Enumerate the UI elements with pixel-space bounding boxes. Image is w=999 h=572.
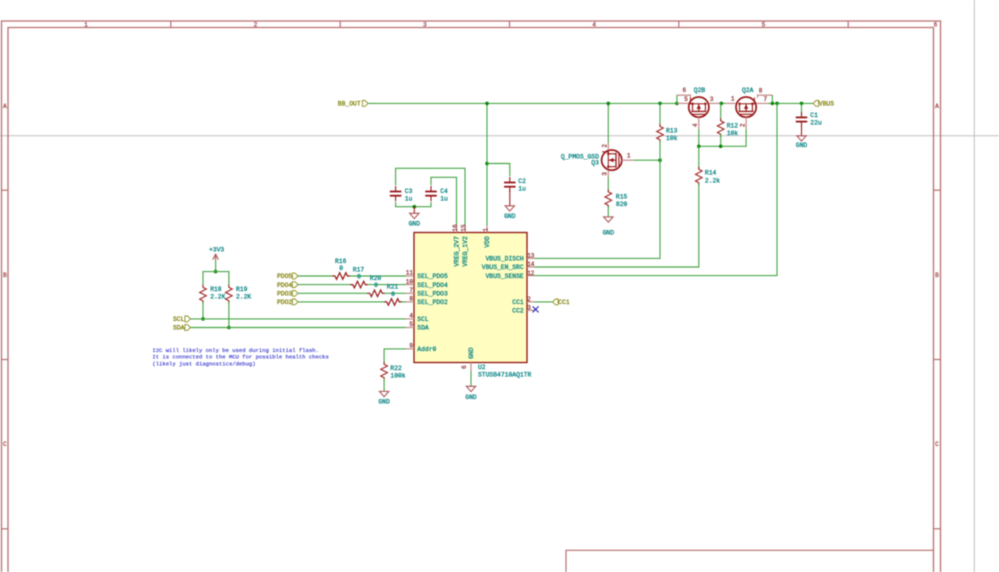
svg-text:6: 6 [682, 87, 686, 94]
svg-text:SEL_PDO4: SEL_PDO4 [417, 282, 448, 289]
wire R16 to pin [350, 275, 406, 277]
junction gate bus left [697, 145, 701, 149]
pin 14 VBUS_EN_SRC [527, 266, 535, 268]
svg-text:16: 16 [452, 224, 459, 232]
svg-text:CC1: CC1 [512, 299, 524, 306]
svg-text:5: 5 [762, 21, 766, 28]
wire to C2 [487, 164, 510, 177]
svg-text:10: 10 [406, 278, 414, 285]
junction +3V3 [214, 270, 218, 274]
svg-text:R15: R15 [616, 193, 628, 200]
svg-text:10k: 10k [666, 135, 678, 142]
svg-text:8: 8 [759, 88, 763, 95]
ground C1 [797, 136, 806, 141]
junction R13 bottom [658, 158, 662, 162]
wire R18 to SCL [202, 302, 204, 319]
transistor Q3 Q_PMOS_GSD [602, 150, 622, 170]
svg-text:6: 6 [461, 365, 468, 369]
svg-text:SCL: SCL [417, 316, 429, 323]
svg-text:Q2A: Q2A [742, 87, 754, 94]
ground C2 [505, 206, 514, 211]
resistor R21 [384, 299, 402, 306]
svg-text:A: A [935, 103, 939, 110]
wire R19 to SDA [228, 302, 230, 327]
svg-text:1: 1 [84, 21, 88, 28]
resistor R16 [332, 273, 350, 280]
pin 1 Q3 [622, 159, 634, 161]
svg-text:2: 2 [602, 144, 609, 148]
wire pin6 to junction [676, 95, 678, 103]
svg-text:R18: R18 [210, 286, 222, 293]
wire C4 to pin16 [431, 177, 457, 225]
wire C3 to pin15 [396, 168, 465, 225]
wire SCL [191, 318, 407, 320]
junction C1 [800, 102, 804, 106]
ground R15 [604, 217, 613, 222]
pin 3 Q2B [709, 102, 721, 104]
svg-text:1: 1 [731, 95, 735, 102]
op-amp U2 STUSB4710AQ1TR body [414, 233, 527, 363]
pin 4 SCL [406, 318, 414, 320]
wire PDO2 to R21 [298, 301, 385, 303]
svg-text:BB_OUT: BB_OUT [338, 101, 361, 108]
junction gnd rail [413, 205, 417, 209]
svg-text:+3V3: +3V3 [209, 247, 224, 254]
wire pin6 to gnd [470, 371, 472, 386]
junction R18 SCL [201, 317, 205, 321]
wire C1 to gnd [801, 125, 803, 136]
svg-text:VREG_2V7: VREG_2V7 [454, 236, 461, 267]
wire BB_OUT to Q2B [368, 102, 677, 104]
svg-text:VBUS_DISCH: VBUS_DISCH [486, 256, 524, 263]
svg-text:3: 3 [710, 96, 714, 103]
wire pullup rail [203, 272, 229, 286]
pin 6 Q2B [677, 95, 691, 98]
svg-text:VBUS: VBUS [819, 101, 834, 108]
pin 9 Addr0 [406, 348, 414, 350]
svg-text:5: 5 [409, 321, 413, 328]
svg-text:R12: R12 [727, 122, 739, 129]
svg-text:100k: 100k [390, 373, 405, 380]
pin 3 Q3 [607, 170, 609, 176]
svg-text:SEL_PDO5: SEL_PDO5 [417, 273, 448, 280]
svg-text:SCL: SCL [173, 316, 185, 323]
ground C3 C4 [413, 207, 415, 214]
resistor R19 [226, 285, 233, 304]
svg-text:3: 3 [602, 172, 609, 176]
svg-text:7: 7 [409, 287, 413, 294]
svg-text:14: 14 [527, 261, 535, 268]
svg-text:1u: 1u [405, 196, 413, 203]
wire Q2B.3 to Q2A.1 [721, 102, 725, 104]
svg-text:R22: R22 [390, 365, 402, 372]
svg-text:PDO4: PDO4 [277, 282, 292, 289]
svg-text:7: 7 [763, 96, 767, 103]
svg-text:SDA: SDA [417, 325, 429, 332]
svg-text:1: 1 [483, 228, 490, 232]
capacitor C3 [390, 191, 402, 193]
resistor R22 [381, 362, 388, 381]
svg-text:11: 11 [406, 270, 414, 277]
pin 13 VBUS_DISCH [527, 257, 535, 259]
resistor R20 [367, 290, 385, 297]
svg-text:Addr0: Addr0 [417, 346, 436, 353]
wire R12 bottom [720, 134, 722, 146]
svg-text:GND: GND [468, 347, 475, 359]
svg-text:0: 0 [357, 274, 361, 281]
pin 2 Q2A gate [745, 117, 747, 129]
wire CC1 [534, 301, 552, 303]
svg-text:10k: 10k [727, 130, 739, 137]
capacitor C4 [425, 191, 437, 193]
capacitor C2 [504, 182, 516, 184]
svg-text:820: 820 [616, 201, 628, 208]
svg-text:0: 0 [339, 265, 343, 272]
svg-text:VREG_1V2: VREG_1V2 [462, 236, 469, 267]
wire to Q3 gate [607, 103, 609, 142]
svg-text:R14: R14 [705, 170, 717, 177]
pin 7 SEL_PDO3 [406, 292, 414, 294]
svg-text:GND: GND [796, 142, 808, 149]
svg-text:(likely just diagnostics/debug: (likely just diagnostics/debug) [152, 360, 255, 367]
wire to C1 [801, 103, 803, 114]
svg-text:2.2K: 2.2K [236, 294, 251, 301]
svg-text:R19: R19 [236, 286, 248, 293]
pin 5 Q2B [677, 102, 689, 104]
wire Addr0 to R22 [384, 349, 406, 364]
svg-text:2.2K: 2.2K [210, 294, 225, 301]
pin 16 VREG_2V7 [456, 225, 458, 232]
pin 8 Q2A [758, 95, 773, 98]
wire Q3 drain to bus [634, 159, 660, 161]
svg-text:CC1: CC1 [558, 299, 570, 306]
wire pin8 to junction [771, 95, 773, 103]
svg-text:PDO5: PDO5 [277, 273, 292, 280]
svg-text:6: 6 [934, 21, 938, 28]
svg-text:PDO2: PDO2 [277, 299, 292, 306]
svg-text:U2: U2 [478, 364, 486, 371]
svg-text:9: 9 [409, 343, 413, 350]
pin 10 SEL_PDO4 [406, 284, 414, 286]
wire PDO3 to R20 [298, 292, 368, 294]
svg-text:C2: C2 [518, 178, 526, 185]
resistor R17 [350, 281, 368, 288]
pin 8 SEL_PDO2 [406, 301, 414, 303]
ground R22 [379, 391, 388, 396]
svg-text:B: B [3, 272, 7, 279]
svg-text:5: 5 [684, 96, 688, 103]
pin 3 CC2 [527, 309, 535, 311]
wire Q2B gate down [698, 130, 700, 147]
svg-text:1: 1 [627, 153, 631, 160]
svg-text:Q2B: Q2B [694, 87, 706, 94]
wire Q2A.7 to VBUS [769, 102, 814, 104]
pin 2 CC1 [527, 301, 535, 303]
no-connect CC2 [533, 306, 539, 312]
wire C3 C4 ground rail [396, 202, 431, 207]
svg-text:R17: R17 [353, 266, 365, 273]
svg-text:22u: 22u [810, 119, 822, 126]
svg-text:1u: 1u [518, 186, 526, 193]
svg-text:C: C [935, 441, 939, 448]
wire R20 to pin [385, 292, 407, 294]
svg-text:GND: GND [504, 213, 516, 220]
wire gate bus to R14 [698, 146, 700, 168]
pin 6 GND [470, 363, 472, 372]
junction Q2B source [675, 102, 679, 106]
transistor Q2B [689, 97, 709, 117]
junction Q3 drop [607, 102, 611, 106]
svg-text:13: 13 [527, 253, 535, 260]
svg-text:4: 4 [692, 123, 699, 127]
wire to R13 [659, 103, 661, 125]
junction VBUS_SENSE [775, 102, 779, 106]
resistor R12 [717, 118, 724, 137]
svg-text:2: 2 [527, 296, 531, 303]
svg-text:4: 4 [592, 21, 596, 28]
svg-text:3: 3 [527, 305, 531, 312]
pin 15 VREG_1V2 [464, 225, 466, 232]
wire R22 to gnd [383, 379, 385, 392]
svg-text:GND: GND [409, 221, 421, 228]
resistor R13 [657, 124, 664, 143]
wire R12 top [720, 103, 722, 120]
svg-text:STUSB4710AQ1TR: STUSB4710AQ1TR [478, 371, 531, 378]
resistor R14 [696, 167, 703, 186]
svg-text:R13: R13 [666, 127, 678, 134]
svg-text:SDA: SDA [173, 325, 185, 332]
svg-text:A: A [3, 103, 7, 110]
svg-text:GND: GND [378, 399, 390, 406]
svg-text:8: 8 [409, 296, 413, 303]
pin 5 SDA [406, 327, 414, 329]
junction R19 SDA [227, 326, 231, 330]
wire R15 to gnd [607, 206, 609, 217]
svg-text:1u: 1u [440, 196, 448, 203]
svg-text:2: 2 [254, 21, 258, 28]
svg-text:GND: GND [465, 394, 477, 401]
wire VDD drop [486, 103, 488, 225]
junction Q2B drain [720, 102, 724, 106]
pin 11 SEL_PDO5 [406, 275, 414, 277]
wire C2 to gnd [509, 190, 511, 206]
svg-text:PDO3: PDO3 [277, 291, 292, 298]
wire Q3 source to R15 [607, 177, 609, 191]
hierarchical label VBUS [813, 101, 819, 107]
svg-text:C4: C4 [440, 188, 448, 195]
svg-text:SEL_PDO2: SEL_PDO2 [417, 299, 448, 306]
svg-text:B: B [935, 272, 939, 279]
hierarchical label CC1 [553, 299, 559, 305]
ground U2 [466, 386, 475, 391]
svg-text:15: 15 [460, 224, 467, 232]
junction gate bus R12 [719, 145, 723, 149]
resistor R15 [605, 189, 612, 208]
pin 4 Q2B gate [698, 117, 700, 129]
wire VBUS_SENSE [534, 103, 777, 275]
svg-text:2.2k: 2.2k [705, 177, 720, 184]
svg-text:R21: R21 [387, 284, 399, 291]
svg-text:0: 0 [374, 282, 378, 289]
pin 1 Q2A [726, 102, 736, 104]
junction R13 top [658, 102, 662, 106]
resistor R18 [200, 285, 207, 304]
junction VDD [485, 102, 489, 106]
pin 1 VDD [486, 225, 488, 232]
junction C2 branch [485, 162, 489, 166]
svg-text:CC2: CC2 [512, 308, 524, 315]
pin 7 Q2A [756, 102, 768, 104]
svg-text:C: C [3, 441, 7, 448]
svg-text:VBUS_EN_SRC: VBUS_EN_SRC [482, 264, 524, 271]
svg-text:3: 3 [423, 21, 427, 28]
svg-text:12: 12 [527, 270, 535, 277]
svg-text:GND: GND [603, 230, 615, 237]
svg-text:SEL_PDO3: SEL_PDO3 [417, 291, 448, 298]
svg-text:C1: C1 [810, 112, 818, 119]
wire R17 to pin [368, 284, 407, 286]
svg-text:VBUS_SENSE: VBUS_SENSE [486, 273, 524, 280]
wire PDO4 to R17 [298, 284, 351, 286]
junction Q2A drain [771, 102, 775, 106]
svg-text:4: 4 [409, 313, 413, 320]
wire R14 to VBUS_EN_SRC [534, 184, 699, 268]
pin 12 VBUS_SENSE [527, 275, 535, 277]
svg-text:Q3: Q3 [591, 160, 599, 167]
wire R21 to pin [402, 301, 407, 303]
transistor Q2A [736, 97, 756, 117]
wire SDA [191, 327, 407, 329]
svg-text:R16: R16 [335, 258, 347, 265]
pin 2 Q3 [607, 143, 609, 150]
svg-text:VDD: VDD [484, 236, 491, 248]
wire Q2A gate down [699, 130, 746, 147]
svg-text:0: 0 [391, 291, 395, 298]
capacitor C1 [796, 116, 808, 118]
wire PDO5 to R16 [298, 275, 333, 277]
wire R13 to VBUS_DISCH [534, 141, 660, 259]
svg-text:C3: C3 [405, 188, 413, 195]
svg-text:R20: R20 [370, 275, 382, 282]
svg-text:2: 2 [739, 123, 746, 127]
